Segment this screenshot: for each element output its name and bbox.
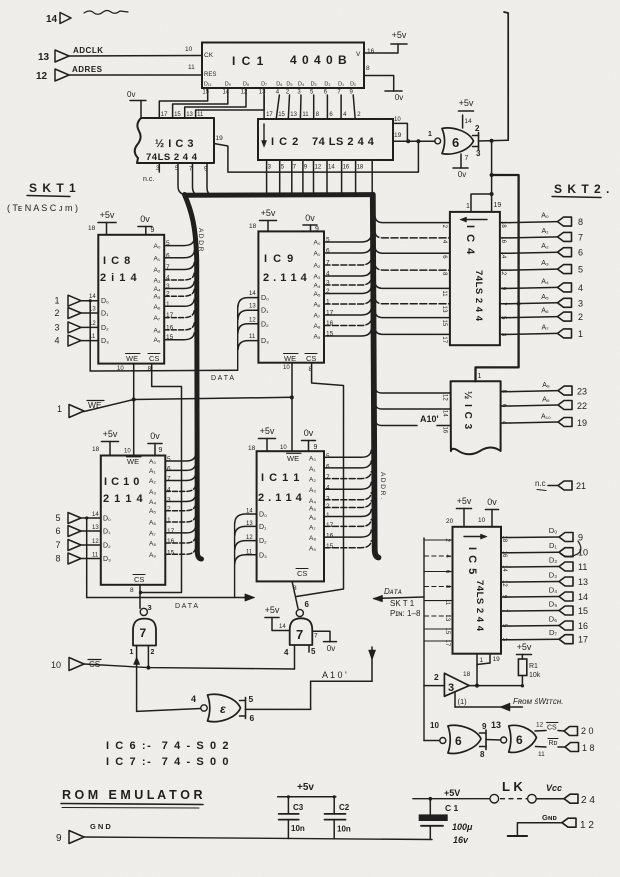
- gate IC7b pin 7 0v: [312, 631, 330, 641]
- svg-text:13: 13: [249, 304, 256, 310]
- wire gate3 input from data column: [424, 685, 444, 687]
- wire gate IC6d output to A10' node: [246, 708, 311, 710]
- svg-text:1: 1: [130, 649, 134, 656]
- svg-text:ε: ε: [220, 702, 226, 716]
- svg-text:½ I C 3: ½ I C 3: [155, 138, 194, 150]
- svg-text:74LS 2 4 4: 74LS 2 4 4: [474, 580, 485, 632]
- svg-text:n.c: n.c: [535, 479, 546, 488]
- arrow inside IC2: [263, 124, 265, 143]
- svg-text:D₇: D₇: [549, 628, 557, 637]
- svg-text:13: 13: [92, 525, 99, 531]
- svg-text:9: 9: [56, 833, 62, 844]
- wire ADCLK to IC1 CK: [69, 55, 202, 58]
- wire DATA line with arrow under IC10: [87, 597, 248, 599]
- svg-text:6: 6: [516, 733, 523, 747]
- svg-text:D₂: D₂: [261, 321, 269, 328]
- svg-text:A₁: A₁: [314, 251, 321, 258]
- svg-text:C3: C3: [293, 803, 304, 812]
- IC5 pins 1,19 enable stubs: [476, 654, 478, 666]
- svg-text:14: 14: [578, 592, 588, 602]
- svg-text:( Tᴇ N A S C ᴊ m ): ( Tᴇ N A S C ᴊ m ): [7, 203, 78, 213]
- wire gate IC6a output to node: [479, 139, 509, 142]
- svg-text:+5v: +5v: [261, 208, 276, 218]
- svg-text:9: 9: [159, 447, 163, 454]
- svg-text:19: 19: [493, 656, 501, 663]
- svg-text:6: 6: [455, 734, 462, 748]
- wire IC9 CS to IC11 CS: [297, 363, 344, 597]
- svg-text:10: 10: [185, 46, 193, 53]
- svg-text:14: 14: [222, 90, 229, 96]
- svg-text:6: 6: [452, 135, 459, 150]
- wire gate output down to IC4/IC3b enables: [491, 141, 493, 175]
- wires IC10 A0-A9 to address bus: [165, 454, 196, 461]
- svg-text:½ I C 3: ½ I C 3: [462, 391, 473, 430]
- wire IC1 pin12 to IC3 pin13 staircase: [185, 88, 246, 118]
- svg-text:1: 1: [478, 373, 482, 380]
- svg-text:15: 15: [578, 606, 588, 616]
- gate IC6a NOR (label 6): [435, 138, 441, 144]
- svg-text:20: 20: [446, 518, 454, 525]
- svg-text:0v: 0v: [487, 497, 497, 507]
- svg-text:7: 7: [465, 155, 469, 162]
- svg-text:D₁: D₁: [103, 529, 111, 536]
- svg-text:Gɴᴅ: Gɴᴅ: [542, 813, 557, 822]
- svg-text:(1): (1): [458, 697, 468, 706]
- svg-text:A₉: A₉: [154, 337, 161, 344]
- svg-text:D₁: D₁: [261, 308, 269, 315]
- svg-text:I C 4: I C 4: [464, 225, 476, 256]
- svg-text:D₂: D₂: [101, 325, 109, 332]
- gate IC6d NOR (label E) inverter: [201, 705, 207, 711]
- svg-text:12: 12: [442, 394, 448, 401]
- svg-text:19: 19: [577, 418, 587, 428]
- svg-text:5: 5: [167, 456, 171, 463]
- IC11 2114 RAM: [257, 451, 324, 581]
- svg-text:A₂: A₂: [309, 477, 316, 484]
- svg-text:D₃: D₃: [549, 571, 557, 580]
- svg-text:9: 9: [482, 722, 487, 731]
- svg-text:3: 3: [448, 682, 454, 694]
- svg-text:1: 1: [167, 517, 171, 524]
- WE rail wire: [84, 397, 292, 411]
- gate IC7a input 2 stub to CS rail: [147, 646, 149, 668]
- svg-text:D₁: D₁: [259, 524, 267, 531]
- DATA arrow into IC5 column: [374, 597, 424, 599]
- svg-text:14: 14: [328, 165, 335, 171]
- svg-text:D₄: D₄: [549, 586, 557, 595]
- svg-text:CS: CS: [547, 725, 557, 732]
- svg-text:2: 2: [326, 503, 330, 510]
- svg-text:A₇: A₇: [154, 315, 161, 322]
- IC5 outputs to SKT2 data connectors D0-D7: [501, 537, 510, 539]
- SKT2 connectors A8 A9 A10: [501, 391, 510, 393]
- svg-text:0v: 0v: [127, 90, 135, 99]
- svg-text:4 0 4 0 B: 4 0 4 0 B: [290, 53, 348, 67]
- svg-text:14: 14: [465, 118, 473, 125]
- svg-text:11: 11: [188, 64, 195, 71]
- wires IC1 outputs down to IC2 inputs: [263, 95, 265, 119]
- svg-text:15: 15: [202, 90, 209, 96]
- svg-text:18: 18: [500, 221, 506, 228]
- wires IC2 outputs down to address bus: [266, 160, 268, 193]
- svg-text:9: 9: [151, 227, 155, 234]
- svg-text:3: 3: [326, 495, 330, 502]
- IC8 2114 RAM: [98, 235, 164, 364]
- svg-text:A₇: A₇: [309, 524, 316, 531]
- link LK open circles with dashed wire: [490, 794, 499, 803]
- svg-text:D₉: D₉: [225, 82, 231, 88]
- svg-text:+5v: +5v: [297, 782, 314, 793]
- wire LK to Vcc connector: [536, 798, 564, 800]
- svg-text:D₁₁: D₁₁: [204, 82, 212, 88]
- svg-text:2 . 1 1 4: 2 . 1 1 4: [258, 492, 303, 504]
- SKT2 Vcc connector 24: [564, 794, 578, 803]
- svg-text:L K: L K: [502, 779, 523, 794]
- IC3 pin 3 n.c. stub: [158, 163, 160, 172]
- wire IC8 CS to IC10 CS: [141, 364, 182, 593]
- svg-text:A 1 0 ': A 1 0 ': [322, 670, 347, 680]
- svg-text:+5v: +5v: [103, 429, 118, 439]
- IC3 pin 9 wire to address bus: [207, 163, 214, 196]
- svg-text:7: 7: [140, 626, 147, 640]
- svg-text:13: 13: [578, 577, 588, 587]
- IC9 2114 RAM: [258, 231, 324, 362]
- svg-text:+5v: +5v: [260, 426, 275, 436]
- svg-text:10: 10: [124, 449, 131, 455]
- IC3 pin 5 wire to address bus: [178, 163, 187, 195]
- svg-text:+5v: +5v: [517, 642, 532, 652]
- svg-text:+5v: +5v: [100, 210, 115, 220]
- scribble correction at D1 connector: [560, 541, 581, 556]
- svg-text:4: 4: [54, 336, 59, 346]
- junction dot on enable line at A5 row: [517, 302, 521, 306]
- svg-text:D₅: D₅: [549, 600, 557, 609]
- svg-text:I C 6 :- 7 4 - S 0 2: I C 6 :- 7 4 - S 0 2: [106, 740, 230, 752]
- svg-text:A₃: A₃: [154, 278, 161, 285]
- svg-text:17: 17: [167, 528, 175, 535]
- svg-text:I C 7 :- 7 4 - S 0 0: I C 7 :- 7 4 - S 0 0: [106, 756, 230, 768]
- wire IC8 WE down to IC10 WE: [133, 364, 135, 456]
- svg-text:12: 12: [315, 165, 322, 171]
- svg-text:0v: 0v: [140, 214, 150, 224]
- svg-text:A₃: A₃: [309, 487, 316, 494]
- svg-text:I C 9: I C 9: [264, 253, 295, 265]
- svg-text:17: 17: [326, 522, 334, 529]
- svg-text:10: 10: [478, 517, 486, 524]
- IC10 2114 RAM: [101, 456, 166, 585]
- svg-text:100μ: 100μ: [452, 822, 473, 832]
- svg-text:A₁₀: A₁₀: [541, 414, 551, 421]
- svg-text:A₇: A₇: [541, 324, 549, 331]
- ground rail wire: [84, 837, 432, 840]
- svg-text:ADCLK: ADCLK: [73, 46, 104, 55]
- svg-text:4: 4: [191, 694, 196, 704]
- svg-text:18: 18: [357, 165, 364, 171]
- capacitor C1 100u 16v electrolytic: [429, 799, 431, 815]
- svg-text:5: 5: [326, 453, 330, 460]
- svg-text:A₃: A₃: [541, 260, 549, 267]
- gate IC7b NAND (label 7) output to IC11 CS: [296, 609, 303, 616]
- svg-text:15: 15: [444, 628, 450, 635]
- svg-text:19: 19: [216, 135, 224, 142]
- svg-text:C2: C2: [339, 803, 350, 812]
- svg-text:C 1: C 1: [445, 803, 459, 813]
- svg-text:2 . 1 1 4: 2 . 1 1 4: [263, 272, 308, 284]
- svg-text:A₄: A₄: [309, 498, 316, 505]
- svg-text:3: 3: [167, 497, 171, 504]
- svg-text:WE: WE: [284, 354, 296, 363]
- svg-text:15: 15: [441, 320, 447, 327]
- gate IC7b input 4 stub: [294, 646, 296, 670]
- gate IC6b output pins 9,8 bracket: [480, 732, 487, 734]
- svg-text:2: 2: [578, 312, 583, 322]
- svg-text:Fʀᴏᴍ śWɪᴛᴄʜ.: Fʀᴏᴍ śWɪᴛᴄʜ.: [513, 697, 563, 706]
- svg-text:18: 18: [92, 446, 100, 453]
- gate IC6c NOR (label 6): [501, 737, 507, 743]
- svg-text:A₅: A₅: [309, 506, 316, 513]
- svg-text:0v: 0v: [395, 93, 403, 102]
- svg-text:WE: WE: [126, 354, 138, 363]
- svg-text:11: 11: [249, 334, 256, 340]
- IC4 right pin numbers and stubs: [500, 222, 510, 224]
- svg-text:22: 22: [577, 401, 587, 411]
- svg-text:A₀: A₀: [309, 455, 316, 462]
- wire gate IC6b to gate IC6c pin 13: [486, 739, 501, 742]
- svg-text:D₆: D₆: [276, 82, 282, 88]
- wire data column into gate IC6b input: [424, 740, 440, 742]
- svg-text:CS: CS: [149, 354, 159, 363]
- svg-text:A₂: A₂: [314, 263, 321, 270]
- svg-text:8: 8: [130, 587, 134, 594]
- SKT2 address connectors A0-A7: [510, 222, 558, 223]
- svg-text:1: 1: [54, 296, 59, 306]
- svg-text:11: 11: [92, 553, 99, 559]
- svg-text:15: 15: [326, 543, 334, 550]
- svg-text:A₃: A₃: [314, 274, 321, 281]
- svg-text:RES: RES: [204, 72, 216, 78]
- svg-text:2: 2: [151, 649, 155, 656]
- wires address bus to IC3b inputs: [375, 387, 451, 393]
- svg-text:7: 7: [326, 474, 330, 481]
- svg-text:16v: 16v: [453, 835, 469, 845]
- svg-text:74LS 2 4 4: 74LS 2 4 4: [473, 270, 484, 322]
- svg-text:5: 5: [249, 694, 254, 704]
- svg-text:18: 18: [249, 223, 257, 230]
- svg-text:A₆: A₆: [314, 302, 321, 309]
- svg-text:A₆: A₆: [541, 308, 549, 315]
- svg-text:10: 10: [430, 721, 439, 730]
- svg-text:10k: 10k: [529, 672, 541, 679]
- capacitor C2 10n: [333, 797, 335, 814]
- svg-text:17: 17: [266, 112, 273, 118]
- svg-text:A₂: A₂: [541, 243, 549, 250]
- 0v symbol at IC1 pin 8: [385, 90, 402, 92]
- svg-text:6: 6: [578, 248, 583, 258]
- svg-text:7: 7: [578, 232, 583, 242]
- wire ADRES to IC1 RES: [69, 74, 202, 76]
- svg-text:21: 21: [576, 481, 586, 491]
- wires IC11 A0-A9 to address bus: [324, 450, 371, 457]
- svg-text:8: 8: [55, 554, 60, 564]
- svg-text:D₀: D₀: [261, 295, 269, 302]
- svg-text:A₆: A₆: [309, 515, 316, 522]
- svg-text:A₄: A₄: [314, 283, 321, 290]
- svg-text:0v: 0v: [304, 428, 314, 438]
- svg-text:12: 12: [249, 317, 256, 323]
- svg-text:11: 11: [538, 751, 545, 758]
- svg-text:D₂: D₂: [324, 82, 330, 88]
- svg-text:D₁: D₁: [338, 82, 344, 88]
- svg-text:A₈: A₈: [154, 327, 161, 334]
- svg-text:1: 1: [466, 203, 470, 210]
- svg-text:17: 17: [578, 635, 588, 645]
- svg-text:2: 2: [167, 506, 171, 513]
- svg-text:+5v: +5v: [392, 30, 407, 40]
- svg-text:A10': A10': [420, 414, 439, 424]
- svg-text:14: 14: [500, 252, 506, 259]
- svg-text:A₈: A₈: [314, 323, 321, 330]
- svg-text:4: 4: [284, 648, 289, 657]
- svg-text:4: 4: [578, 283, 583, 293]
- svg-text:18: 18: [463, 671, 471, 678]
- svg-text:5: 5: [311, 647, 316, 656]
- svg-text:14: 14: [501, 565, 507, 572]
- svg-text:A₁: A₁: [149, 468, 156, 475]
- svg-text:WE: WE: [287, 454, 299, 463]
- svg-text:9: 9: [578, 533, 583, 543]
- arrow inside IC5: [464, 536, 483, 538]
- wire gate3 output to R1 and IC5 enables: [469, 685, 522, 687]
- svg-text:16: 16: [367, 48, 375, 55]
- capacitor C3 10n: [287, 797, 289, 814]
- svg-text:14: 14: [279, 624, 286, 630]
- svg-text:+5v: +5v: [457, 496, 472, 506]
- svg-text:D₀: D₀: [549, 526, 558, 535]
- wire DATA line under IC8 to IC9: [90, 369, 238, 372]
- svg-text:11: 11: [441, 290, 447, 297]
- svg-text:+5V: +5V: [444, 788, 460, 798]
- svg-text:12: 12: [501, 580, 507, 587]
- svg-text:I C 1 1: I C 1 1: [261, 472, 300, 484]
- CS rail wire to gates: [84, 664, 295, 669]
- svg-text:A₇: A₇: [149, 530, 156, 537]
- gate IC6a output pins 2,3 bracket: [473, 135, 479, 137]
- svg-text:A₈: A₈: [309, 535, 316, 542]
- gate IC6c output RD to SKT2 pin 18: [536, 746, 547, 749]
- svg-text:2: 2: [434, 672, 439, 682]
- svg-text:14: 14: [92, 512, 99, 518]
- svg-text:9: 9: [314, 444, 318, 451]
- svg-text:3: 3: [148, 603, 152, 612]
- svg-text:A₉: A₉: [542, 397, 550, 404]
- svg-text:2 0: 2 0: [581, 726, 594, 736]
- svg-text:1: 1: [428, 131, 432, 138]
- svg-text:CS: CS: [134, 575, 144, 584]
- svg-text:I C 1: I C 1: [232, 54, 265, 68]
- svg-text:16: 16: [442, 427, 448, 434]
- svg-text:CS: CS: [297, 569, 307, 578]
- IC4 74LS244 buffer: [450, 212, 500, 345]
- svg-text:10n: 10n: [291, 824, 305, 833]
- SKT2 GND connector 12: [562, 818, 576, 827]
- svg-text:15: 15: [167, 549, 175, 556]
- svg-text:0v: 0v: [327, 644, 335, 653]
- wires data column to IC5 inputs: [424, 539, 453, 541]
- svg-text:SK T 1: SK T 1: [390, 599, 415, 608]
- svg-text:A₅: A₅: [541, 294, 549, 301]
- svg-text:D A T A: D A T A: [175, 603, 198, 610]
- svg-text:WE: WE: [127, 457, 139, 466]
- svg-text:A₄: A₄: [154, 286, 161, 293]
- svg-text:16: 16: [343, 165, 350, 171]
- svg-text:23: 23: [577, 387, 587, 397]
- svg-text:17: 17: [444, 640, 450, 647]
- svg-text:1: 1: [57, 404, 62, 414]
- svg-text:R O M E M U L A T O R: R O M E M U L A T O R: [62, 788, 203, 802]
- svg-text:16: 16: [167, 538, 175, 545]
- wire A10' horizontal: [311, 680, 372, 682]
- svg-text:D₁: D₁: [101, 311, 109, 318]
- gate3 enable pin (1) from switch: [454, 692, 456, 707]
- svg-text:A D D R: A D D R: [197, 228, 204, 252]
- wires IC9 D0-D3 hooks to data line: [238, 298, 259, 307]
- svg-text:+5v: +5v: [459, 98, 474, 108]
- svg-text:A₁: A₁: [154, 255, 161, 262]
- svg-text:2 i 1 4: 2 i 1 4: [100, 272, 138, 284]
- svg-text:15: 15: [278, 112, 285, 118]
- svg-text:A₈: A₈: [149, 541, 156, 548]
- wires IC8 A0-A9 to address bus: [164, 239, 194, 246]
- svg-text:6: 6: [250, 713, 255, 723]
- svg-text:A₉: A₉: [314, 334, 321, 341]
- svg-text:12: 12: [241, 90, 248, 96]
- svg-text:18: 18: [248, 445, 256, 452]
- svg-text:12: 12: [536, 722, 544, 729]
- svg-text:5: 5: [578, 265, 583, 275]
- svg-text:2 4: 2 4: [581, 795, 595, 806]
- +5v rail for C3 C2: [278, 796, 336, 798]
- data column vertical to gates: [423, 538, 425, 741]
- svg-text:13: 13: [491, 720, 501, 730]
- svg-text:I C 5: I C 5: [466, 547, 478, 575]
- svg-text:6: 6: [167, 465, 171, 472]
- svg-text:74 LS 2 4 4: 74 LS 2 4 4: [312, 136, 375, 148]
- svg-text:7: 7: [55, 540, 60, 550]
- svg-text:18: 18: [501, 536, 507, 543]
- svg-text:13: 13: [444, 615, 450, 622]
- svg-text:D A T A: D A T A: [211, 375, 234, 382]
- svg-text:D₀: D₀: [259, 512, 267, 519]
- svg-text:A₉: A₉: [149, 552, 156, 559]
- svg-text:4: 4: [167, 486, 171, 493]
- svg-text:D₄: D₄: [298, 82, 305, 88]
- svg-text:D₇: D₇: [261, 82, 267, 88]
- svg-text:CK: CK: [204, 52, 214, 59]
- svg-text:G N D: G N D: [90, 822, 111, 831]
- buffer gate 3 (IC6) driving IC5 enables: [444, 673, 469, 696]
- svg-text:1 2: 1 2: [580, 820, 594, 831]
- svg-text:I C 1 0: I C 1 0: [104, 476, 140, 488]
- svg-text:16: 16: [501, 551, 507, 558]
- svg-text:10: 10: [51, 660, 61, 670]
- svg-text:A₀: A₀: [154, 243, 161, 250]
- svg-text:V: V: [356, 51, 361, 58]
- svg-text:0v: 0v: [458, 170, 466, 179]
- svg-text:D₃: D₃: [311, 82, 317, 88]
- svg-text:19: 19: [394, 132, 402, 139]
- svg-text:R1: R1: [529, 663, 538, 670]
- svg-text:11: 11: [302, 112, 309, 118]
